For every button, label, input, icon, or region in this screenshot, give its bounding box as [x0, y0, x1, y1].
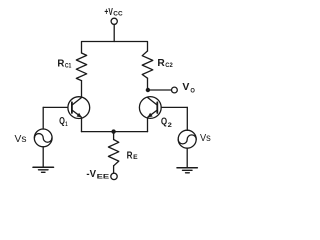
svg-text:O: O: [190, 88, 195, 95]
svg-text:Q: Q: [59, 116, 65, 127]
svg-text:V: V: [182, 82, 189, 93]
svg-text:Vs: Vs: [200, 133, 211, 144]
svg-text:R: R: [157, 58, 165, 69]
svg-text:Q: Q: [161, 117, 167, 128]
svg-text:R: R: [127, 150, 133, 161]
svg-text:+V: +V: [104, 7, 112, 18]
svg-text:R: R: [57, 58, 64, 69]
svg-text:E: E: [133, 154, 138, 161]
svg-text:1: 1: [65, 121, 68, 128]
svg-text:C1: C1: [65, 63, 72, 70]
svg-text:EE: EE: [97, 173, 110, 180]
svg-text:C2: C2: [165, 62, 173, 69]
svg-text:-V: -V: [86, 169, 96, 180]
svg-text:2: 2: [168, 122, 172, 129]
svg-text:Vs: Vs: [15, 134, 27, 145]
svg-text:CC: CC: [113, 11, 122, 18]
